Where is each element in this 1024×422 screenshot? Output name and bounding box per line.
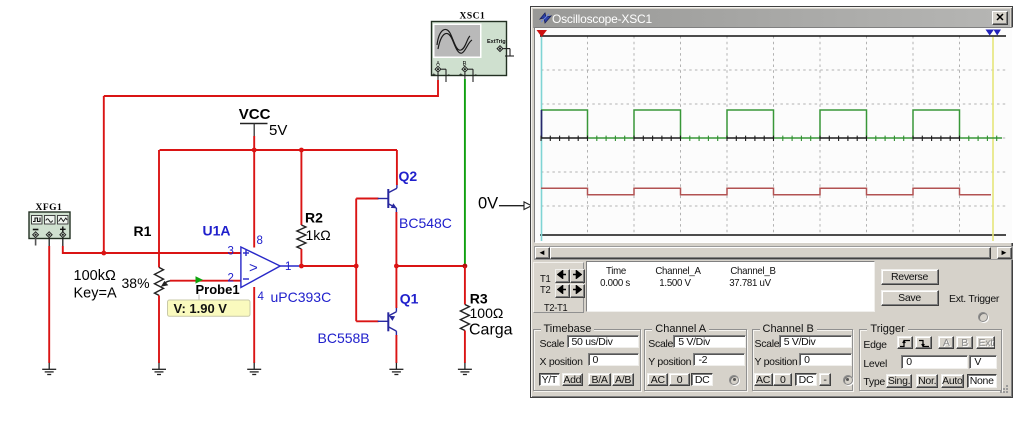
svg-text:0V: 0V: [478, 195, 498, 213]
probe Probe1 readout box: [198, 295, 200, 301]
node VCC rail / pin 8: [252, 148, 257, 153]
svg-text:R1: R1: [134, 223, 152, 239]
wire VCC rail to R2: [300, 150, 302, 225]
svg-text:>: >: [249, 260, 258, 277]
svg-text:ExtTrig: ExtTrig: [487, 39, 506, 45]
trace baseline dark segments: [541, 137, 960, 139]
cursor readout panel: [533, 262, 584, 313]
circuit schematic: [0, 0, 532, 422]
svg-text:Key=A: Key=A: [74, 286, 117, 302]
ground (R3): [458, 363, 472, 375]
svg-text:Q1: Q1: [400, 291, 419, 307]
svg-text:uPC393C: uPC393C: [271, 289, 332, 305]
wire Q1 base: [356, 320, 378, 322]
Channel B group: [752, 329, 853, 391]
Ext trigger radio: [978, 312, 988, 322]
scope grid: [541, 36, 1006, 235]
cursor T2 (yellow): [992, 37, 994, 241]
potentiometer R1 body: [155, 267, 164, 295]
cursor T1 (cyan): [540, 37, 542, 241]
svg-text:XFG1: XFG1: [36, 203, 63, 213]
svg-text:R2: R2: [305, 210, 323, 226]
wire Q2 emitter to output: [395, 212, 397, 266]
svg-text:100kΩ: 100kΩ: [74, 268, 116, 284]
potentiometer R1 wiper arrow: [165, 281, 172, 284]
Trigger group: [859, 329, 1002, 391]
svg-text:+: +: [459, 72, 463, 79]
probe Probe1 arrow: [196, 276, 204, 283]
node junction XFG1/scope-A tap: [101, 251, 106, 256]
wire XFG1 output stub: [62, 238, 64, 247]
wire bases vertical: [355, 199, 357, 322]
svg-text:V: 1.90 V: V: 1.90 V: [174, 301, 228, 316]
svg-text:8: 8: [257, 235, 263, 247]
Ext. Trigger label: [949, 293, 999, 305]
power VCC symbol: [240, 123, 268, 125]
Reverse button: [881, 269, 939, 285]
node op-amp output / R2: [299, 264, 304, 269]
wire emitters to load R3: [396, 265, 465, 267]
ground (XFG1 common): [42, 363, 56, 375]
wire VCC rail: [160, 149, 398, 151]
svg-text:2: 2: [228, 273, 234, 285]
resistor R2 body: [297, 225, 306, 249]
wire R2 bottom to output node: [300, 249, 302, 266]
transistor Q1 (PNP): [378, 307, 397, 336]
Channel A group: [644, 329, 747, 391]
ground (op-amp pin 4): [247, 363, 261, 375]
node load / scope B: [463, 264, 468, 269]
oscilloscope window XSC1: [530, 6, 1013, 398]
resize grip: [999, 384, 1009, 394]
svg-text:BC558B: BC558B: [318, 330, 370, 346]
oscilloscope instrument icon XSC1: [432, 22, 507, 76]
wire Q2 base: [356, 198, 378, 200]
XSC1 terminal A: [432, 62, 451, 83]
wire R1 wiper to op-amp pin 2: [170, 280, 241, 282]
Timebase group: [533, 329, 641, 391]
wire XFG1 minus stub: [35, 238, 37, 246]
XSC1 ExtTrig terminal: [497, 46, 514, 56]
node emitters junction: [394, 264, 399, 269]
XFG1 terminal plus: [60, 232, 66, 238]
ground (R1): [152, 363, 166, 375]
svg-text:XSC1: XSC1: [460, 12, 486, 22]
wire XFG1 output to op-amp pin 3: [63, 246, 241, 253]
svg-text:Carga: Carga: [469, 322, 513, 339]
wire Q1 emitter to output: [395, 266, 397, 308]
horizontal scrollbar: [534, 246, 1013, 260]
wire node to R3: [464, 266, 466, 305]
Save button: [881, 290, 939, 306]
wire Q1 collector to ground: [395, 335, 397, 363]
svg-text:1: 1: [285, 261, 291, 273]
scope plot bottom border: [540, 234, 1006, 236]
wire op-amp pin 4 to ground: [253, 287, 255, 363]
wire top rail to scope channel A: [104, 80, 438, 96]
ground (Q1 collector): [389, 363, 403, 375]
node VCC rail / R2: [299, 148, 304, 153]
trace tick marks (green): [596, 136, 996, 141]
scope plot top border: [540, 35, 1006, 37]
cursor T2 marker: [985, 30, 1001, 36]
waveform display: [534, 27, 1013, 243]
XFG1 terminal minus: [33, 232, 39, 238]
XFG1 terminal common: [46, 232, 52, 238]
svg-text:3: 3: [228, 246, 234, 258]
svg-text:BC548C: BC548C: [399, 215, 452, 231]
op-amp U1A symbol: [241, 247, 301, 288]
trace channel A (red square wave): [541, 188, 991, 195]
wire VCC stem and op-amp pin 8: [253, 136, 255, 248]
svg-text:U1A: U1A: [203, 223, 231, 239]
wire Q2 collector to VCC rail: [396, 150, 398, 185]
svg-text:+: +: [432, 72, 436, 79]
svg-text:100Ω: 100Ω: [470, 305, 504, 321]
svg-text:Q2: Q2: [399, 168, 418, 184]
wire R3 to ground: [464, 331, 466, 364]
trace channel B first rising edge: [540, 110, 542, 138]
transistor Q2 (NPN): [378, 184, 397, 213]
XSC1 terminal B: [459, 62, 478, 83]
svg-text:1kΩ: 1kΩ: [306, 227, 331, 243]
wire XFG1 common to ground: [48, 238, 50, 246]
wire tap up to top rail: [103, 96, 105, 253]
readout values box: [586, 261, 875, 312]
trace tick marks (dark): [541, 136, 960, 141]
wire scope channel B to output node (green): [464, 79, 466, 266]
svg-text:VCC: VCC: [239, 106, 271, 123]
wire R1 bottom to ground: [158, 295, 160, 363]
annotation 0V arrow: [478, 195, 532, 213]
svg-text:38%: 38%: [122, 275, 150, 291]
resistor R3 body: [460, 305, 469, 331]
node bases tee: [354, 264, 359, 269]
trace channel B (green square wave): [541, 110, 1002, 138]
wire VCC rail to R1 top: [158, 150, 160, 267]
cursor T1 marker: [536, 30, 547, 37]
wire op-amp output to transistor bases: [301, 265, 356, 267]
svg-text:4: 4: [258, 291, 265, 303]
function generator instrument icon XFG1: [29, 212, 70, 239]
svg-text:5V: 5V: [269, 122, 287, 139]
title bar: [533, 9, 1010, 29]
